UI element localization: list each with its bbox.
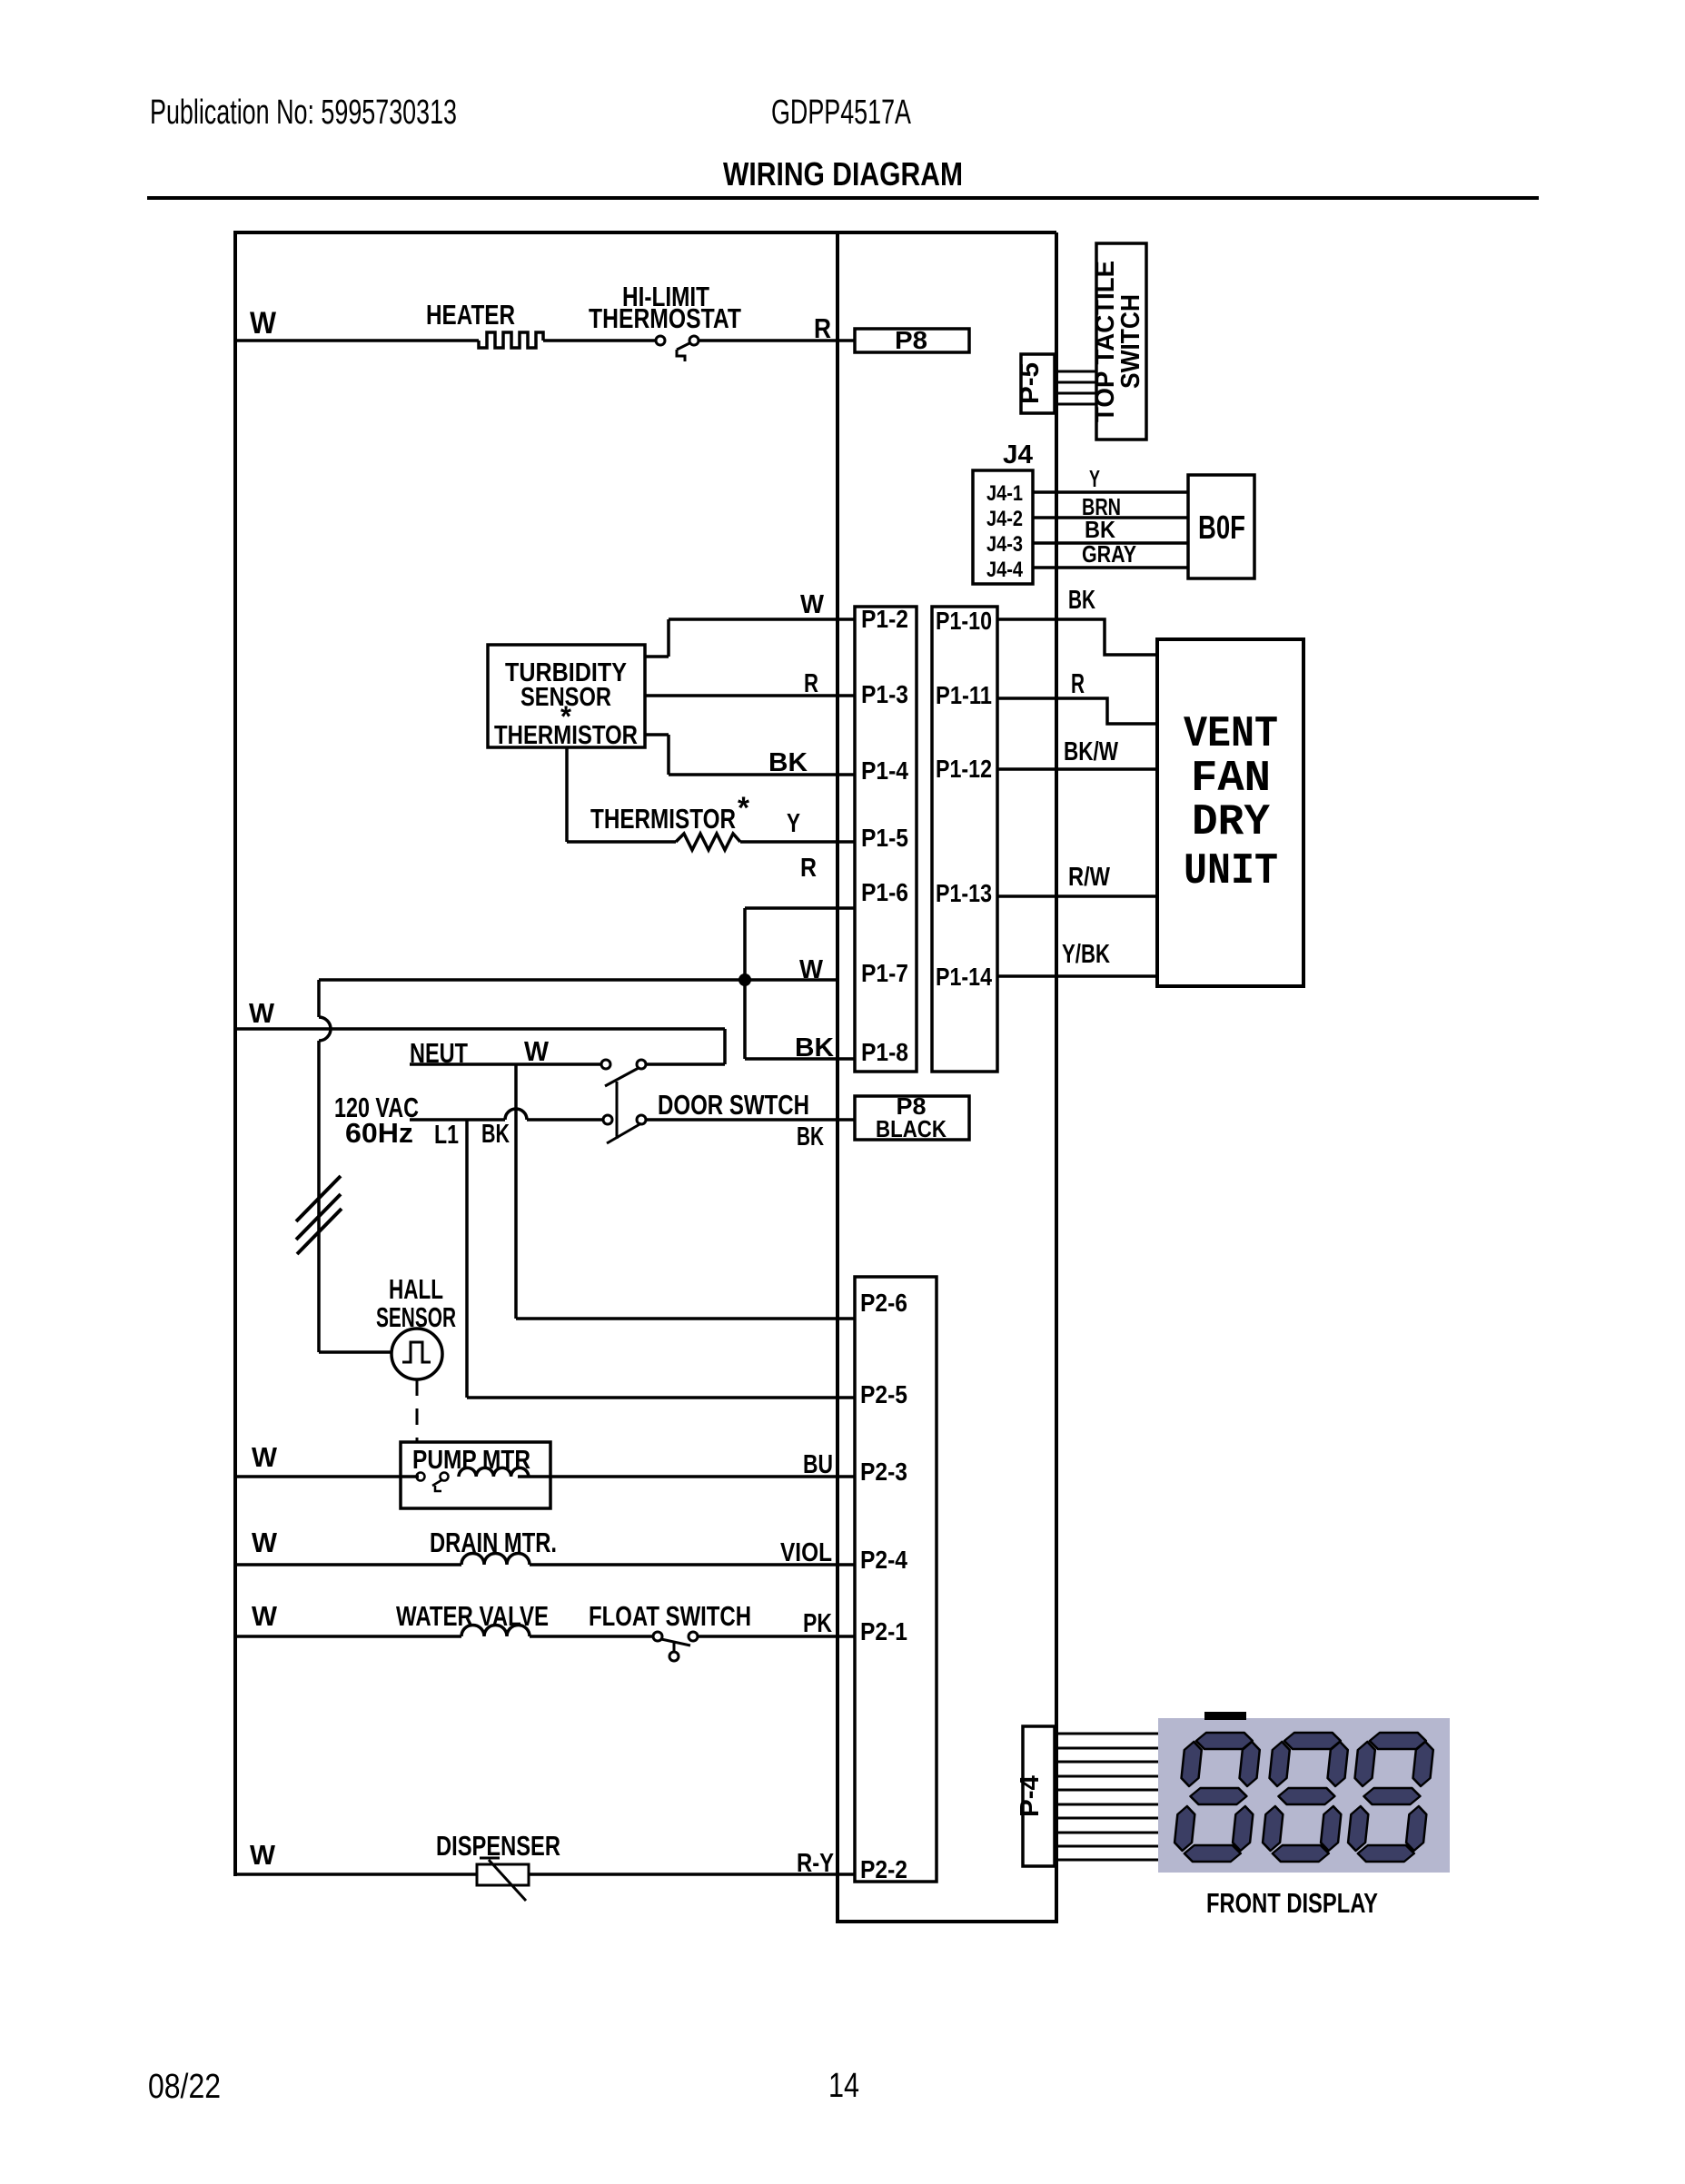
svg-text:J4: J4: [1003, 440, 1033, 469]
svg-text:THERMOSTAT: THERMOSTAT: [589, 302, 741, 334]
wire switch to P8 BLACK: [646, 1118, 855, 1122]
wire P-4 pin 9 to display: [1056, 1845, 1158, 1848]
svg-text:P1-2: P1-2: [861, 605, 908, 633]
inductor water valve coil: [461, 1626, 530, 1637]
svg-text:HALL: HALL: [389, 1273, 443, 1305]
wire P-5 pin 3: [1056, 392, 1096, 395]
wire main board bus right vertical: [1055, 232, 1058, 1922]
wire hop over W riser: [505, 1109, 527, 1120]
svg-text:P8: P8: [895, 326, 927, 354]
svg-text:R: R: [1071, 667, 1085, 699]
wire W from left edge: [235, 1027, 725, 1031]
svg-text:P1-8: P1-8: [861, 1038, 908, 1066]
wire switch to W riser: [646, 1062, 725, 1066]
wire P-4 pin 7 to display: [1056, 1817, 1158, 1820]
svg-text:THERMISTOR: THERMISTOR: [590, 803, 736, 835]
svg-text:P1-6: P1-6: [861, 878, 908, 906]
wire left edge (W side): [233, 231, 237, 1876]
svg-text:Y/BK: Y/BK: [1062, 940, 1110, 969]
svg-text:W: W: [250, 306, 277, 341]
wire P-4 pin 2 to display: [1056, 1747, 1158, 1750]
svg-text:R: R: [814, 312, 831, 344]
svg-text:J4-1: J4-1: [986, 481, 1023, 506]
wire vertical junction branch: [743, 908, 747, 1059]
svg-text:BK: BK: [481, 1120, 510, 1149]
svg-text:L1: L1: [434, 1121, 459, 1150]
component B0F: [1188, 475, 1254, 578]
svg-text:P2-6: P2-6: [860, 1289, 907, 1317]
no-connection slashes: [296, 1176, 341, 1221]
connector P2: [855, 1277, 937, 1882]
svg-text:60Hz: 60Hz: [345, 1117, 413, 1149]
svg-text:P-5: P-5: [1016, 362, 1045, 404]
sensor TURBIDITY SENSOR / THERMISTOR box: [488, 645, 645, 747]
connector P-5: [1021, 354, 1055, 413]
svg-text:FAN: FAN: [1191, 755, 1271, 804]
wire neutral stub to switch: [410, 1062, 601, 1066]
svg-text:GRAY: GRAY: [1082, 540, 1136, 568]
svg-text:VIOL: VIOL: [780, 1538, 832, 1567]
svg-text:R: R: [804, 669, 818, 698]
svg-text:P2-1: P2-1: [860, 1617, 907, 1645]
svg-text:FRONT DISPLAY: FRONT DISPLAY: [1206, 1887, 1378, 1919]
switch DOOR SWTCH upper pole: [601, 1060, 610, 1069]
svg-text:W: W: [249, 997, 275, 1029]
switch FLOAT SWITCH contacts: [653, 1632, 662, 1641]
wire P-4 pin 8 to display: [1056, 1832, 1158, 1834]
wire riser L1 to P2-5: [465, 1120, 469, 1398]
display digit 2 (8): [1261, 1733, 1350, 1862]
connector P1 (right column P1-10..P1-14): [932, 607, 997, 1072]
svg-text:P2-2: P2-2: [860, 1855, 907, 1883]
node junction dot: [738, 973, 751, 986]
svg-text:DOOR SWTCH: DOOR SWTCH: [658, 1089, 809, 1121]
svg-text:GDPP4517A: GDPP4517A: [771, 94, 911, 132]
svg-text:W: W: [252, 1600, 278, 1632]
svg-text:THERMISTOR: THERMISTOR: [494, 721, 638, 750]
wire turbidity box down to thermistor: [565, 747, 569, 842]
svg-text:P1-10: P1-10: [936, 607, 992, 635]
wire hop to switch: [527, 1118, 603, 1122]
svg-text:Publication No: 5995730313: Publication No: 5995730313: [150, 94, 457, 132]
svg-text:BLACK: BLACK: [876, 1115, 947, 1142]
svg-text:BK: BK: [768, 748, 808, 777]
component VENT FAN DRY UNIT: [1157, 639, 1303, 986]
svg-text:W: W: [524, 1035, 550, 1067]
svg-text:FLOAT SWITCH: FLOAT SWITCH: [589, 1600, 751, 1632]
svg-text:HEATER: HEATER: [426, 299, 515, 331]
svg-text:W: W: [252, 1441, 278, 1473]
svg-text:P1-12: P1-12: [936, 755, 992, 783]
svg-text:P2-4: P2-4: [860, 1546, 907, 1574]
svg-text:W: W: [800, 590, 825, 619]
svg-text:P-4: P-4: [1016, 1775, 1045, 1817]
svg-text:P1-4: P1-4: [861, 756, 908, 785]
svg-text:P1-7: P1-7: [861, 959, 908, 987]
svg-text:VENT: VENT: [1184, 710, 1278, 759]
svg-text:WIRING DIAGRAM: WIRING DIAGRAM: [723, 155, 963, 193]
svg-text:Y: Y: [1089, 465, 1100, 492]
display artifact bar above panel: [1204, 1712, 1246, 1720]
svg-text:W: W: [252, 1527, 278, 1558]
wire P-4 pin 4 to display: [1056, 1775, 1158, 1778]
svg-text:R: R: [800, 854, 817, 883]
svg-text:BU: BU: [803, 1450, 833, 1479]
wire main board bus left vertical: [836, 232, 839, 1922]
switch TOP TACTILE SWITCH: [1096, 243, 1146, 440]
wire vertical with hop to hall sensor: [317, 980, 321, 1017]
wire heater to thermostat: [543, 339, 657, 342]
svg-text:DRY: DRY: [1192, 798, 1270, 847]
svg-text:P1-13: P1-13: [936, 879, 992, 907]
svg-text:PK: PK: [803, 1609, 832, 1638]
connector P8 BLACK: [855, 1096, 969, 1140]
switch mechanical link: [616, 1082, 619, 1139]
svg-text:P1-3: P1-3: [861, 680, 908, 708]
inductor drain coil: [461, 1554, 530, 1566]
svg-text:BK: BK: [1068, 586, 1095, 615]
inductor pump coil: [459, 1468, 529, 1477]
wire P-5 pin 1: [1056, 371, 1096, 373]
wire top edge of control-board outline: [235, 231, 1056, 234]
header rule: [147, 196, 1539, 200]
wire P-4 pin 6 to display: [1056, 1804, 1158, 1806]
svg-text:P1-11: P1-11: [936, 681, 992, 709]
connector P8: [855, 329, 969, 352]
svg-text:*: *: [738, 791, 750, 825]
wire P-4 pin 1 to display: [1056, 1733, 1158, 1735]
svg-text:BK: BK: [797, 1122, 824, 1151]
switch DOOR SWTCH lower pole: [603, 1115, 612, 1124]
svg-text:R/W: R/W: [1068, 863, 1111, 892]
svg-text:B0F: B0F: [1198, 509, 1245, 546]
connector P-4: [1023, 1726, 1055, 1866]
svg-text:08/22: 08/22: [148, 2068, 221, 2106]
motor PUMP MTR: [401, 1442, 550, 1508]
wire pump row left: [235, 1475, 419, 1478]
wire hall sensor dashed to pump: [416, 1379, 419, 1442]
svg-text:BK/W: BK/W: [1064, 737, 1118, 766]
svg-text:P2-5: P2-5: [860, 1380, 907, 1408]
svg-text:BK: BK: [1085, 516, 1115, 543]
svg-text:P1-5: P1-5: [861, 824, 908, 852]
wire P-4 pin 10 to display: [1056, 1859, 1158, 1862]
svg-text:SWITCH: SWITCH: [1116, 294, 1145, 389]
display digit 3 (8): [1346, 1733, 1435, 1862]
wire P-4 pin 3 to display: [1056, 1761, 1158, 1764]
wire board bottom edge: [836, 1920, 1058, 1923]
connector P1 (left column P1-2..P1-8): [855, 607, 917, 1072]
svg-text:J4-4: J4-4: [986, 558, 1024, 582]
display digit 1 (8): [1173, 1733, 1262, 1862]
svg-text:W: W: [250, 1839, 276, 1871]
svg-text:Y: Y: [787, 809, 800, 838]
wire L1 to hop: [410, 1118, 505, 1122]
wire P-5 pin 2: [1056, 381, 1096, 384]
wire valve to float switch: [530, 1635, 653, 1638]
wire riser W to P2-6: [514, 1064, 518, 1319]
wire P-4 pin 5 to display: [1056, 1789, 1158, 1792]
svg-text:P1-14: P1-14: [936, 963, 992, 991]
svg-text:UNIT: UNIT: [1184, 847, 1278, 896]
display FRONT DISPLAY panel: [1158, 1718, 1450, 1873]
svg-text:P2-3: P2-3: [860, 1458, 907, 1486]
svg-text:J4-3: J4-3: [986, 532, 1023, 557]
switch inside pump: [417, 1473, 425, 1481]
svg-text:14: 14: [828, 2067, 859, 2105]
wire P-5 pin 4: [1056, 403, 1096, 406]
svg-text:J4-2: J4-2: [986, 507, 1023, 531]
wire heater line left segment: [235, 339, 479, 342]
wire thermostat to P8: [698, 339, 855, 342]
